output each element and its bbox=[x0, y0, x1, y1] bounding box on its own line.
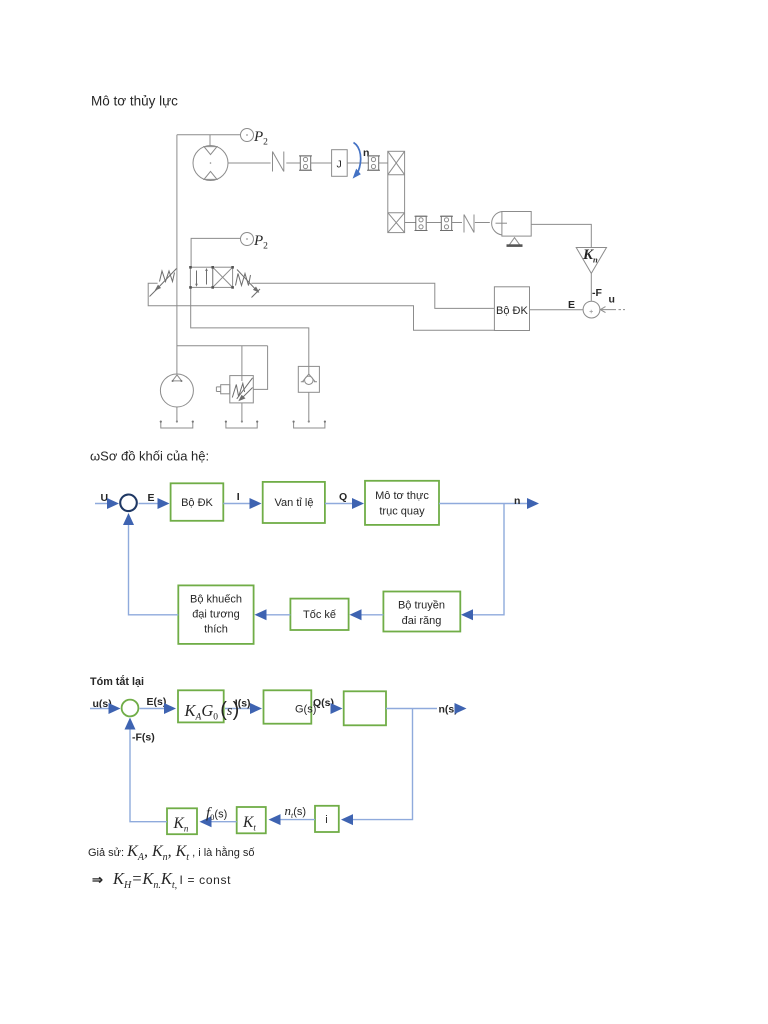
svg-text:E: E bbox=[148, 492, 155, 504]
svg-text:Q(s): Q(s) bbox=[313, 697, 334, 709]
svg-text:I(s): I(s) bbox=[235, 698, 251, 710]
svg-text:n: n bbox=[514, 495, 520, 507]
svg-text:I: I bbox=[237, 491, 240, 503]
svg-text:u: u bbox=[609, 294, 615, 306]
svg-text:Bộ ĐK: Bộ ĐK bbox=[496, 305, 528, 317]
svg-text:I = const: I = const bbox=[180, 873, 232, 887]
svg-text:E(s): E(s) bbox=[147, 696, 167, 708]
svg-text:-F(s): -F(s) bbox=[132, 732, 155, 744]
svg-text:KH=Kn.Kt,: KH=Kn.Kt, bbox=[112, 869, 177, 891]
svg-text:thích: thích bbox=[204, 624, 228, 636]
svg-text:Tốc kế: Tốc kế bbox=[303, 609, 336, 621]
svg-text:Mô tơ thực: Mô tơ thực bbox=[375, 490, 429, 502]
svg-text:Bộ khuếch: Bộ khuếch bbox=[190, 594, 242, 606]
svg-text:-F: -F bbox=[592, 287, 602, 299]
svg-text:đại tương: đại tương bbox=[192, 609, 240, 621]
svg-text:n(s): n(s) bbox=[439, 704, 458, 716]
svg-text:KAG0: KAG0 bbox=[184, 701, 219, 723]
svg-text:⇒: ⇒ bbox=[92, 872, 103, 887]
svg-text:U: U bbox=[101, 492, 109, 504]
svg-text:Van tỉ lệ: Van tỉ lệ bbox=[275, 497, 314, 509]
svg-text:f0(s): f0(s) bbox=[206, 806, 227, 823]
svg-text:i: i bbox=[325, 814, 327, 826]
svg-text:Tóm tắt lại: Tóm tắt lại bbox=[90, 675, 144, 688]
svg-text:đai răng: đai răng bbox=[402, 615, 442, 627]
svg-text:E: E bbox=[568, 299, 575, 311]
svg-text:J: J bbox=[337, 159, 342, 171]
svg-text:ωSơ đồ khối của hệ:: ωSơ đồ khối của hệ: bbox=[90, 449, 209, 464]
svg-text:Q: Q bbox=[339, 491, 347, 503]
svg-text:Bộ truyền: Bộ truyền bbox=[398, 600, 445, 612]
svg-text:Bộ ĐK: Bộ ĐK bbox=[181, 497, 213, 509]
svg-text:trục quay: trục quay bbox=[379, 506, 425, 518]
svg-text:nt(s): nt(s) bbox=[285, 803, 307, 820]
svg-text:Mô tơ thủy lực: Mô tơ thủy lực bbox=[91, 94, 178, 109]
